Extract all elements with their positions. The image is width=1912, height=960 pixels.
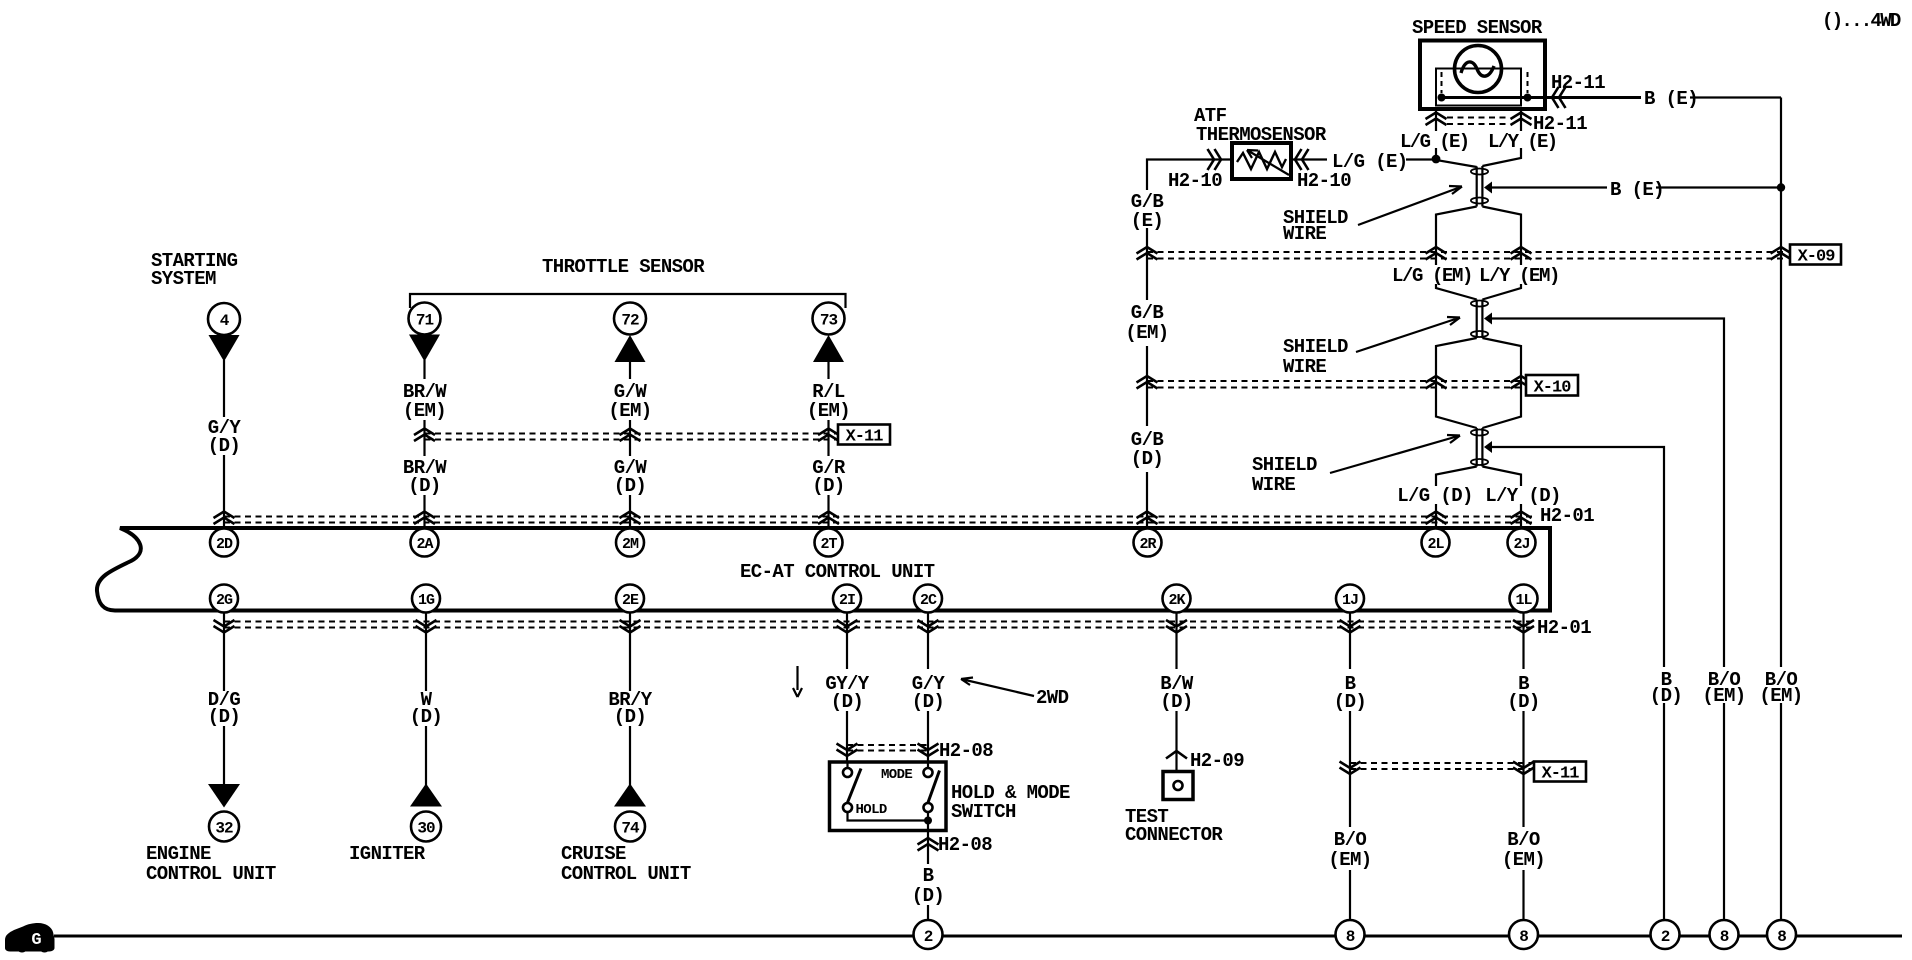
- wire vertical right B(E) lower segment: [1780, 703, 1782, 921]
- svg-text:71: 71: [416, 312, 434, 330]
- connector H2-10 chevrons left: [1208, 149, 1222, 170]
- speed sensor dashed pin line left: [1441, 72, 1443, 93]
- pin circle 2L: [1422, 529, 1450, 557]
- wire L/Y(E) from sensor: [1520, 109, 1522, 131]
- pin circle 1L: [1510, 585, 1538, 613]
- H2-08 dashed bus: [847, 744, 928, 746]
- speed sensor pin dot right: [1524, 94, 1532, 102]
- wire 1L B lower: [1522, 711, 1524, 827]
- wire W lower: [425, 726, 427, 786]
- svg-text:30: 30: [417, 820, 435, 838]
- svg-text:L/G (E): L/G (E): [1332, 151, 1408, 173]
- connector chevron 2D at H2-01: [214, 512, 235, 525]
- svg-text:SHIELD: SHIELD: [1252, 454, 1317, 476]
- svg-text:WIRE: WIRE: [1283, 223, 1326, 245]
- svg-text:SPEED SENSOR: SPEED SENSOR: [1412, 17, 1543, 39]
- wire BR/W mid: [423, 420, 425, 456]
- svg-text:(D): (D): [912, 691, 944, 713]
- svg-text:73: 73: [820, 312, 838, 330]
- svg-text:2: 2: [924, 928, 933, 946]
- svg-text:H2-09: H2-09: [1190, 750, 1244, 772]
- wire L/G(D) to box: [1435, 503, 1437, 527]
- wire vertical right B(E) down to ground bus: [1780, 98, 1782, 668]
- small down arrow: [793, 666, 802, 697]
- svg-text:WIRE: WIRE: [1252, 474, 1295, 496]
- X-10 dashed bus: [1147, 380, 1524, 382]
- pin circle 2G: [210, 585, 238, 613]
- connector chevron 1J at X-11: [1340, 762, 1361, 775]
- ground node 8 1L: [1509, 920, 1538, 949]
- EC-AT control unit box: [97, 528, 1550, 611]
- connector chevron 2T at H2-01: [818, 512, 839, 525]
- connector chevron 2I at H2-01 bottom: [837, 620, 858, 633]
- X-11 bottom dashed bus: [1350, 762, 1532, 764]
- ground symbol wheels: [17, 942, 28, 953]
- wire BR/Y lower: [629, 726, 631, 786]
- svg-text:B (E): B (E): [1610, 179, 1664, 201]
- svg-text:H2-01: H2-01: [1537, 617, 1591, 639]
- svg-text:(E): (E): [1131, 210, 1163, 232]
- svg-text:CONTROL UNIT: CONTROL UNIT: [561, 863, 691, 885]
- connector chevron 2M at H2-01: [620, 512, 641, 525]
- X-10 box: [1526, 375, 1578, 396]
- svg-text:CRUISE: CRUISE: [561, 843, 626, 865]
- connector chevron 1L at H2-01 bottom: [1513, 620, 1534, 633]
- svg-text:(D): (D): [812, 475, 844, 497]
- wire B to ground: [927, 905, 929, 921]
- arrow triangle 73 in: [813, 335, 844, 362]
- svg-text:8: 8: [1777, 928, 1786, 946]
- speed sensor box: [1420, 41, 1545, 110]
- svg-text:G/B: G/B: [1131, 302, 1164, 324]
- svg-text:H2-10: H2-10: [1168, 170, 1222, 192]
- wire from shield 2 to right: [1490, 319, 1724, 668]
- connector H2-11 chevron L/Y: [1511, 113, 1532, 126]
- ground node 2 right: [1651, 920, 1680, 949]
- shield arrow 3: [1330, 435, 1460, 473]
- wire B from switch: [927, 821, 929, 865]
- svg-text:74: 74: [621, 820, 640, 838]
- connector chevron 2L at H2-01: [1426, 512, 1447, 525]
- svg-text:CONTROL UNIT: CONTROL UNIT: [146, 863, 276, 885]
- pin circle 2C: [914, 585, 942, 613]
- wire L/G(E) below label: [1436, 148, 1477, 167]
- arrow 2WD: [961, 678, 1034, 697]
- svg-text:(D): (D): [1334, 691, 1366, 713]
- svg-text:2C: 2C: [920, 592, 937, 609]
- svg-text:(D): (D): [408, 475, 440, 497]
- speed sensor pin dot left: [1438, 94, 1446, 102]
- pin circle 2I: [833, 585, 861, 613]
- svg-text:(EM): (EM): [608, 400, 651, 422]
- svg-text:(D): (D): [614, 706, 646, 728]
- wire B/W upper: [1175, 612, 1177, 669]
- connector H2-11 chevrons on B(E) wire: [1552, 87, 1566, 108]
- svg-text:X-11: X-11: [1542, 765, 1580, 784]
- arrow triangle 71 out: [409, 335, 440, 362]
- arrow triangle 74 out: [614, 784, 646, 807]
- svg-text:(D): (D): [208, 706, 240, 728]
- H2-01 bottom dashed bus: [224, 621, 1531, 623]
- shield drain dot 1: [1484, 182, 1492, 194]
- node 74 circle: [615, 812, 645, 842]
- connector chevron 2C at H2-08: [918, 744, 939, 757]
- ground symbol car: [5, 923, 55, 952]
- X-11 bottom box: [1534, 762, 1586, 782]
- ground node 2 switch: [914, 920, 943, 949]
- pin circle 2T: [815, 529, 843, 557]
- connector chevron 2R at H2-01: [1137, 512, 1158, 525]
- wire R/L upper: [827, 362, 829, 379]
- pin circle 2M: [616, 529, 644, 557]
- svg-text:(EM): (EM): [1125, 322, 1168, 344]
- ground bus: [54, 935, 1902, 938]
- svg-text:(D): (D): [1160, 691, 1192, 713]
- svg-text:L/Y (E): L/Y (E): [1488, 131, 1557, 153]
- svg-text:(EM): (EM): [1702, 685, 1745, 707]
- wire W upper: [425, 612, 427, 691]
- X-11 top box: [838, 425, 890, 445]
- wire B(E) second right part: [1656, 186, 1781, 188]
- wire L/G(E) to junction: [1406, 158, 1436, 160]
- svg-text:L/Y (EM): L/Y (EM): [1479, 265, 1559, 287]
- connector chevron 2T at X-11: [818, 429, 839, 442]
- svg-text:L/G (E): L/G (E): [1400, 131, 1469, 153]
- svg-text:2R: 2R: [1139, 536, 1156, 553]
- ground node 8 far: [1767, 920, 1796, 949]
- svg-text:1L: 1L: [1515, 592, 1532, 609]
- svg-text:(EM): (EM): [1328, 849, 1371, 871]
- wire G/B(D) vertical: [1146, 472, 1148, 527]
- wire L/G(E) from sensor: [1435, 109, 1437, 131]
- switch blade left: [848, 769, 862, 803]
- speed sensor AC generator circle: [1455, 46, 1502, 93]
- svg-text:(D): (D): [912, 885, 944, 907]
- svg-text:(D): (D): [831, 691, 863, 713]
- shield barrel 2: [1436, 338, 1521, 428]
- pin circle 2A: [411, 529, 439, 557]
- connector chevron 2E at H2-01 bottom: [620, 620, 641, 633]
- pin circle 1J: [1336, 585, 1364, 613]
- wire 1J B lower: [1349, 711, 1351, 827]
- test connector box: [1163, 772, 1193, 800]
- wire G/B to ATF sensor: [1147, 160, 1232, 191]
- junction dot B(E) wires: [1777, 183, 1785, 191]
- wire BR/Y upper: [629, 612, 631, 691]
- connector H2-10 chevrons right: [1295, 149, 1309, 170]
- shield pinch 1 lines: [1477, 166, 1483, 207]
- wire G/W lower: [629, 495, 631, 527]
- shield drain dot 2: [1484, 313, 1492, 325]
- connector chevron 1G at H2-01 bottom: [416, 620, 437, 633]
- connector chevron 1L at X-11: [1513, 762, 1534, 775]
- wire GY/Y lower: [846, 711, 848, 762]
- wire L/Y(E) below label: [1482, 148, 1521, 166]
- junction dot L/G(E): [1432, 155, 1441, 164]
- svg-text:SHIELD: SHIELD: [1283, 336, 1348, 358]
- svg-text:WIRE: WIRE: [1283, 356, 1326, 378]
- svg-text:MODE: MODE: [881, 767, 912, 783]
- svg-text:THROTTLE SENSOR: THROTTLE SENSOR: [542, 256, 705, 278]
- ground node 8 mid: [1710, 920, 1739, 949]
- svg-text:2A: 2A: [416, 536, 433, 553]
- connector chevron barrel2 left at X-10: [1426, 376, 1447, 389]
- svg-text:G: G: [31, 931, 41, 950]
- connector H2-11 chevron L/G: [1426, 113, 1447, 126]
- svg-text:(D): (D): [1650, 685, 1682, 707]
- pin circle 2E: [616, 585, 644, 613]
- svg-text:(EM): (EM): [1759, 685, 1802, 707]
- connector chevron 2C at H2-01 bottom: [918, 620, 939, 633]
- switch stub left: [846, 762, 848, 768]
- shield arrow 2: [1356, 317, 1460, 352]
- connector chevron 2G at H2-01 bottom: [214, 620, 235, 633]
- svg-text:SYSTEM: SYSTEM: [151, 268, 216, 290]
- svg-text:(D): (D): [614, 475, 646, 497]
- wire B(E) from speed sensor: [1442, 96, 1642, 99]
- label L/G (D): [1399, 486, 1473, 504]
- svg-text:2L: 2L: [1427, 536, 1444, 553]
- switch link wire: [848, 812, 929, 821]
- pin circle 2K: [1163, 585, 1191, 613]
- arrow triangle 30 out: [410, 784, 442, 807]
- wire G/B(E) vertical upper: [1146, 228, 1148, 300]
- connector chevron 2K at H2-01 bottom: [1166, 620, 1187, 633]
- svg-text:HOLD: HOLD: [856, 802, 887, 818]
- pin circle 2J: [1508, 529, 1536, 557]
- shield splay bottom: [1436, 467, 1521, 487]
- wire G/R lower: [827, 495, 829, 527]
- svg-text:2J: 2J: [1513, 536, 1529, 553]
- switch blade right: [928, 771, 940, 803]
- X-09 dashed bus: [1147, 251, 1787, 253]
- wire BR/W lower: [423, 495, 425, 527]
- svg-text:2WD: 2WD: [1036, 687, 1069, 709]
- svg-text:EC-AT CONTROL UNIT: EC-AT CONTROL UNIT: [740, 561, 935, 583]
- wire G/Y upper: [927, 612, 929, 669]
- H2-01 top dashed bus: [224, 516, 1534, 518]
- svg-text:X-11: X-11: [846, 428, 884, 447]
- shield pinch 2: [1477, 300, 1483, 339]
- svg-text:ENGINE: ENGINE: [146, 843, 211, 865]
- connector chevron barrel2 right at X-10: [1511, 376, 1532, 389]
- wire D/G lower: [223, 726, 225, 785]
- pin circle 2D: [210, 529, 238, 557]
- X-11 top dashed bus: [425, 433, 837, 435]
- connector chevron B(E) at X-09: [1771, 247, 1792, 260]
- wire 1L B upper: [1522, 612, 1524, 669]
- wire B(E) continues to right corner: [1690, 96, 1781, 98]
- svg-text:2D: 2D: [216, 536, 233, 553]
- node 72 circle: [614, 303, 646, 335]
- svg-text:B (E): B (E): [1644, 88, 1698, 110]
- wire BR/W upper: [423, 360, 425, 379]
- arrow triangle 4 out: [209, 335, 240, 362]
- svg-text:L/G (D): L/G (D): [1397, 485, 1473, 507]
- svg-text:2K: 2K: [1168, 592, 1185, 609]
- wire L/Y(D) to box: [1520, 503, 1522, 527]
- svg-text:(D): (D): [1507, 691, 1539, 713]
- node 73 circle: [813, 303, 845, 335]
- wire G/W upper: [629, 362, 631, 379]
- svg-text:SWITCH: SWITCH: [951, 801, 1016, 823]
- svg-text:B/O: B/O: [1334, 829, 1367, 851]
- svg-text:H2-08: H2-08: [938, 834, 992, 856]
- pin circle 2R: [1134, 529, 1162, 557]
- connector chevron G/B at X-09: [1137, 247, 1158, 260]
- svg-text:2I: 2I: [839, 592, 855, 609]
- hold and mode switch box: [830, 762, 947, 831]
- svg-text:8: 8: [1346, 928, 1355, 946]
- ground node 8 1J: [1336, 920, 1365, 949]
- switch junction dot: [924, 817, 932, 825]
- wire G/Y lower: [927, 711, 929, 762]
- node 30 circle: [411, 812, 441, 842]
- wire GY/Y upper: [846, 612, 848, 669]
- connector chevron barrel1 right at X-09: [1511, 247, 1532, 260]
- svg-text:X-10: X-10: [1534, 379, 1572, 398]
- svg-text:32: 32: [215, 820, 233, 838]
- wire 1L to ground: [1522, 870, 1524, 921]
- pin circle 1G: [412, 585, 440, 613]
- wire right col1 lower: [1663, 703, 1665, 921]
- svg-text:H2-08: H2-08: [939, 740, 993, 762]
- switch terminal bottom right: [924, 803, 933, 812]
- shield pinch 1 top loop: [1471, 169, 1488, 175]
- svg-text:(D): (D): [410, 706, 442, 728]
- wire L/G(E) from ATF box: [1291, 158, 1327, 160]
- test connector terminal: [1174, 781, 1183, 790]
- wire G/Y lower: [223, 455, 225, 527]
- connector chevron 2I at H2-08: [837, 744, 858, 757]
- svg-text:2: 2: [1661, 928, 1670, 946]
- wire G/Y upper: [223, 360, 225, 417]
- svg-text:H2-11: H2-11: [1551, 72, 1605, 94]
- shield pinch 1 bottom loop: [1471, 198, 1488, 204]
- svg-text:L/Y (D): L/Y (D): [1485, 485, 1561, 507]
- svg-text:8: 8: [1720, 928, 1729, 946]
- thermistor diagonal arrow: [1247, 150, 1289, 175]
- throttle sensor bracket: [410, 294, 846, 308]
- svg-text:B/O: B/O: [1507, 829, 1540, 851]
- connector chevron 2A at X-11: [414, 429, 435, 442]
- connector chevron G/B at X-10: [1137, 376, 1158, 389]
- shield pinch 2 bottom loop: [1471, 331, 1488, 337]
- speed sensor dashed pin line right: [1527, 72, 1529, 93]
- svg-text:1J: 1J: [1342, 592, 1358, 609]
- svg-text:8: 8: [1519, 928, 1528, 946]
- ATF thermosensor box: [1232, 143, 1291, 179]
- connector chevron barrel1 left at X-09: [1426, 247, 1447, 260]
- connector chevron H2-08 lower: [918, 838, 939, 851]
- svg-text:H2-10: H2-10: [1297, 170, 1351, 192]
- svg-text:(EM): (EM): [403, 400, 446, 422]
- svg-text:1G: 1G: [418, 592, 435, 609]
- arrow triangle 32 in: [208, 784, 240, 808]
- shield pinch 3: [1477, 428, 1483, 467]
- svg-text:X-09: X-09: [1798, 248, 1836, 267]
- shield pinch 2 top loop: [1471, 301, 1488, 307]
- shield pinch 3 bottom loop: [1471, 459, 1488, 465]
- wire B/W lower: [1175, 711, 1177, 772]
- svg-text:(D): (D): [208, 435, 240, 457]
- svg-text:(EM): (EM): [807, 400, 850, 422]
- wire R/L mid: [827, 420, 829, 456]
- svg-text:2E: 2E: [622, 592, 639, 609]
- label L/Y (D): [1487, 486, 1561, 504]
- svg-text:H2-01: H2-01: [1540, 505, 1594, 527]
- svg-text:IGNITER: IGNITER: [349, 843, 426, 865]
- wire G/B(EM) vertical: [1146, 346, 1148, 426]
- X-09 box: [1790, 245, 1841, 265]
- svg-text:2G: 2G: [216, 592, 233, 609]
- wire 1J B upper: [1349, 612, 1351, 669]
- node 71 circle: [409, 303, 441, 335]
- svg-text:2T: 2T: [820, 536, 837, 553]
- label L/G (EM): [1392, 265, 1474, 284]
- connector chevron 2M at X-11: [620, 429, 641, 442]
- switch terminal top right: [924, 768, 933, 777]
- shield pinch 3 top loop: [1471, 430, 1488, 436]
- svg-text:()...4WD: ()...4WD: [1822, 10, 1901, 32]
- connector H2-11 dashed pair: [1447, 117, 1510, 119]
- wire D/G upper: [223, 612, 225, 691]
- svg-text:2M: 2M: [622, 536, 639, 553]
- wire right col2 lower: [1723, 703, 1725, 921]
- connector chevron 2J at H2-01: [1511, 512, 1532, 525]
- connector chevron 1J at H2-01 bottom: [1340, 620, 1361, 633]
- svg-text:CONNECTOR: CONNECTOR: [1125, 824, 1223, 846]
- switch stub right: [927, 762, 929, 768]
- svg-text:72: 72: [621, 312, 639, 330]
- svg-text:L/G (EM): L/G (EM): [1392, 265, 1472, 287]
- svg-text:(D): (D): [1131, 448, 1163, 470]
- svg-text:(EM): (EM): [1502, 849, 1545, 871]
- label L/Y (EM): [1480, 265, 1560, 284]
- wire G/W mid: [629, 420, 631, 456]
- node 4 circle: [208, 303, 240, 335]
- connector chevron H2-09: [1166, 751, 1187, 759]
- switch terminal top left: [843, 768, 852, 777]
- svg-text:4: 4: [220, 312, 230, 330]
- speed sensor sine wave: [1461, 62, 1494, 76]
- wire B(E) second: [1490, 186, 1607, 188]
- shield barrel 1: [1436, 207, 1521, 300]
- shield arrow 1: [1358, 186, 1462, 225]
- svg-text:B: B: [923, 865, 934, 887]
- wire from shield 3 to right: [1490, 447, 1664, 667]
- shield drain dot 3: [1484, 441, 1492, 453]
- speed sensor inner connector rect: [1436, 69, 1521, 106]
- connector chevron 2A at H2-01: [414, 512, 435, 525]
- node 32 circle: [209, 812, 239, 842]
- thermistor zigzag: [1237, 152, 1286, 169]
- switch terminal bottom left: [843, 803, 852, 812]
- wire 1J to ground: [1349, 870, 1351, 921]
- arrow triangle 72 in: [615, 335, 646, 362]
